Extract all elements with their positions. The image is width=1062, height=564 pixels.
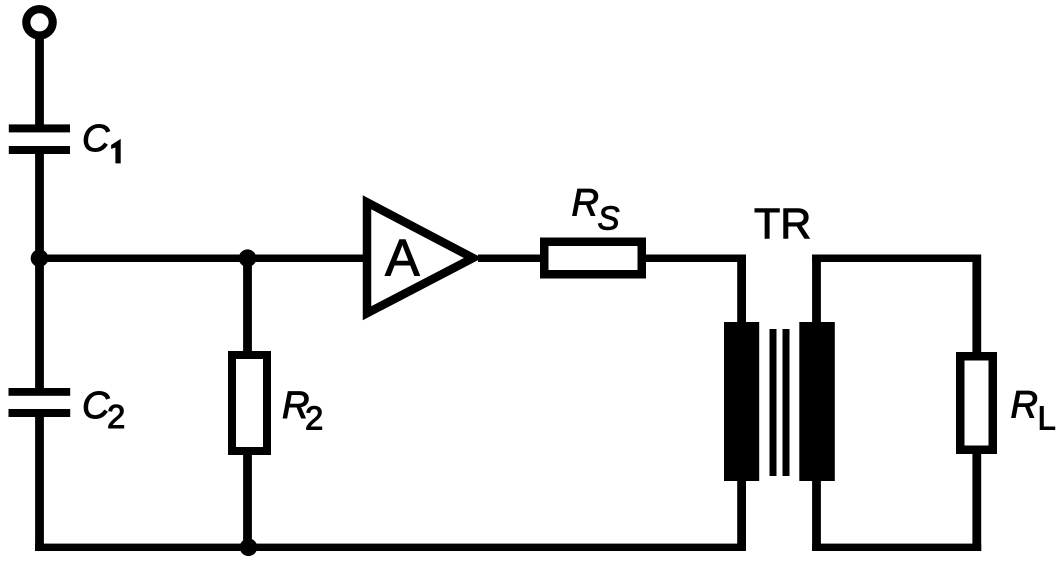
- resistor R2: [232, 355, 267, 451]
- transformer TR core line 2: [783, 329, 790, 476]
- wire: transformer primary top lead (vertical): [737, 255, 746, 323]
- wire: main horizontal (node to amplifier input): [40, 255, 364, 263]
- node C (junction of R2 lead with bottom rail): [240, 539, 258, 557]
- wire: terminal to C1 top plate: [35, 35, 44, 125]
- label C1: [82, 118, 120, 163]
- transformer TR core line 1: [770, 329, 777, 476]
- wire: R2 bottom lead: [243, 454, 252, 548]
- wire: C1 bottom to C2 top: [35, 153, 44, 389]
- label R2: [282, 385, 323, 437]
- svg-text:2: 2: [305, 400, 323, 437]
- wire: R2 top lead: [243, 258, 252, 352]
- label RS: [572, 183, 620, 237]
- resistor RS: [544, 242, 642, 275]
- capacitor C2: [9, 388, 71, 417]
- wire: transformer secondary top lead: [812, 255, 821, 323]
- svg-text:TR: TR: [754, 200, 811, 248]
- svg-text:S: S: [598, 200, 620, 237]
- transformer TR secondary winding: [799, 322, 835, 481]
- wire: RS to transformer primary top: [642, 255, 745, 263]
- wire: amplifier output to RS: [478, 255, 544, 263]
- wire: RL top lead (vertical): [972, 255, 981, 354]
- transformer TR primary winding: [724, 322, 759, 481]
- wire: transformer secondary bottom lead: [812, 480, 821, 551]
- label C2: [82, 385, 125, 435]
- capacitor C1: [9, 124, 70, 154]
- svg-text:C: C: [82, 118, 110, 160]
- svg-text:R: R: [1011, 384, 1038, 426]
- resistor RL: [960, 356, 993, 450]
- wire: RL bottom lead: [972, 452, 981, 551]
- wire: bottom rail (primary side): [35, 544, 745, 551]
- wire: bottom rail (secondary side): [812, 544, 981, 551]
- node A (junction of C1/C2 with horizontal wire): [31, 249, 49, 267]
- wire: transformer primary bottom lead: [737, 480, 746, 551]
- svg-text:R: R: [572, 183, 599, 225]
- wire: secondary top rail to RL: [812, 255, 981, 263]
- svg-text:L: L: [1038, 399, 1056, 436]
- op-amp U1 (amplifier triangle): [367, 202, 473, 313]
- svg-text:A: A: [385, 230, 420, 288]
- node B (junction of R2 with horizontal wire): [239, 249, 257, 267]
- terminal T1 (input terminal circle): [26, 9, 52, 35]
- label RL: [1011, 384, 1056, 436]
- wire: C2 bottom to bottom rail: [35, 416, 44, 551]
- svg-text:2: 2: [107, 398, 125, 435]
- svg-text:C: C: [82, 385, 110, 427]
